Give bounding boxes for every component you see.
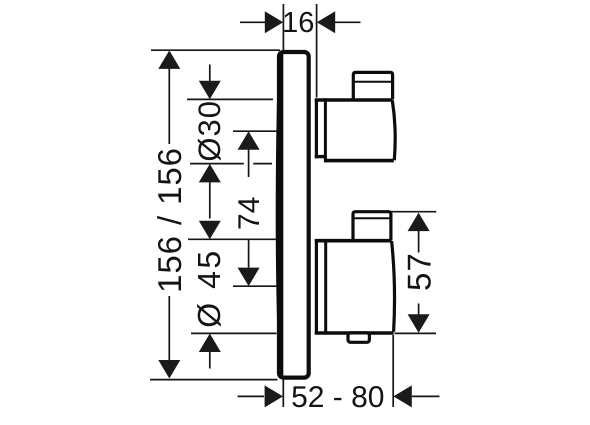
dim 16: left arrow	[265, 11, 283, 33]
dim 156/156: dimension line upper segment	[168, 69, 170, 144]
svg-text:57: 57	[400, 252, 437, 291]
dim 57: upper stub	[418, 231, 420, 253]
dim 52-80: left tail line	[238, 395, 265, 397]
svg-text:16: 16	[282, 7, 314, 39]
dim 156/156: top arrow	[158, 50, 180, 69]
dim 52-80: left extension line	[282, 380, 284, 408]
dim 52-80: left arrow	[265, 385, 283, 407]
lower handle bottom tab	[348, 333, 369, 342]
dim diam30: bottom extension line left part	[190, 163, 244, 165]
dim 57: bottom extension line	[395, 332, 437, 334]
dim 57: top extension line	[391, 211, 437, 213]
lower handle step cap	[353, 212, 391, 240]
dim diam45: bottom stub	[209, 352, 211, 369]
lower handle body	[315, 239, 395, 333]
dim diam30: bottom arrow	[199, 164, 221, 183]
upper handle step cap	[353, 72, 392, 99]
dim 74: top arrow	[238, 131, 260, 150]
dim diam30: bottom extension line right part	[253, 163, 272, 165]
escutcheon plate outline	[276, 52, 309, 379]
dim diam30: shared stub to dim45	[209, 182, 211, 219]
dim diam45: bottom arrow	[199, 334, 221, 353]
dim 74: bottom arrow	[238, 268, 260, 287]
dim 57: bottom arrow	[408, 314, 430, 333]
dim 57: lower stub	[418, 304, 420, 315]
dim 16: right extension line	[316, 4, 318, 98]
dim diam30: top stub	[209, 65, 211, 82]
dim 16: left extension line	[282, 4, 284, 50]
dim 16: right tail line	[335, 21, 361, 23]
dim 156/156: bottom extension line	[150, 379, 278, 381]
dim 74: lower stub	[248, 240, 250, 268]
upper handle body	[315, 98, 395, 162]
dim diam45: bottom extension line	[191, 332, 277, 334]
dim 156/156: dimension line lower segment	[168, 296, 170, 361]
dim 74: top extension line	[233, 130, 277, 132]
dim diam45: top arrow	[199, 221, 221, 240]
svg-text:74: 74	[233, 197, 266, 230]
svg-text:Ø 45: Ø 45	[191, 248, 227, 327]
dim diam30: top extension line	[187, 98, 273, 100]
lower handle collar	[315, 239, 318, 335]
dim 16: left tail line	[240, 21, 265, 23]
dim 57: top arrow	[408, 213, 430, 232]
dim diam30: top arrow	[199, 81, 221, 100]
svg-text:Ø30: Ø30	[192, 100, 227, 162]
upper handle collar	[315, 99, 326, 159]
svg-text:52 - 80: 52 - 80	[291, 381, 384, 414]
dim 156/156: top extension line	[151, 49, 280, 51]
dim 74: upper stub	[248, 150, 250, 178]
dim 16: right arrow	[317, 11, 335, 33]
dim 156/156: bottom arrow	[158, 360, 180, 379]
dim 52-80: right arrow	[393, 385, 411, 407]
dim 74: bottom extension line	[233, 285, 277, 287]
dim 52-80: right tail line	[412, 395, 440, 397]
svg-text:156 / 156: 156 / 156	[151, 147, 188, 293]
dim 52-80: right extension line	[392, 335, 394, 407]
dim diam45: top extension line	[188, 238, 276, 240]
